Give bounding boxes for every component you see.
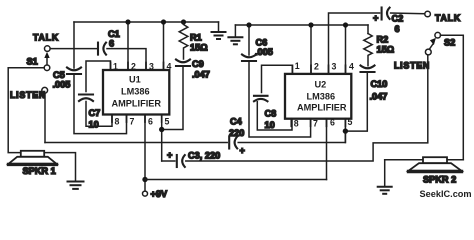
speaker SPKR1 (9, 151, 57, 165)
wire SPKR1 right and ground drop (44, 153, 75, 181)
wire +9V pin6 U1 (144, 115, 146, 192)
wire C7 bottom to pin 8 (86, 102, 112, 127)
resistor R1 (179, 22, 188, 59)
wire pin2 U2 riser (310, 25, 312, 74)
capacitor C10 (361, 66, 375, 73)
switch S2 (425, 11, 431, 17)
svg-text:U2: U2 (315, 80, 327, 90)
capacitor C1 (98, 43, 106, 55)
svg-text:S2: S2 (444, 38, 455, 48)
wire S2 pole to SPKR2 (441, 35, 464, 160)
svg-text:SeekIC.com: SeekIC.com (420, 189, 472, 199)
wire pin2 riser (127, 22, 129, 70)
svg-text:6: 6 (395, 24, 400, 34)
junction dot pin2 U2 (308, 22, 313, 27)
ground G4 (378, 187, 392, 194)
svg-text:C2: C2 (392, 14, 404, 24)
wire C6 drop (248, 25, 250, 55)
wire C10 bottom to pin5 U2 (345, 73, 367, 131)
wire ground rail left (74, 21, 219, 23)
svg-text:.047: .047 (370, 92, 388, 102)
wire listen/C4 line (45, 142, 227, 144)
op-amp U2 LM386 (285, 74, 351, 119)
junction dot pin4 U2 (343, 22, 348, 27)
wire ground 2 drop (234, 25, 236, 37)
switch S1 listen contact (42, 87, 48, 93)
svg-text:C10: C10 (371, 79, 388, 89)
wire SPKR2 left and ground drop (385, 159, 423, 161)
svg-text:8: 8 (115, 117, 120, 127)
wire C5 bottom to pin 7 (74, 75, 127, 134)
svg-text:LM386: LM386 (121, 87, 150, 97)
svg-text:3: 3 (149, 62, 154, 72)
ground G2 (228, 37, 242, 44)
wire C6 bottom to pin7 U2 (249, 62, 311, 137)
svg-text:5: 5 (348, 117, 353, 127)
svg-text:6: 6 (148, 117, 153, 127)
svg-text:1: 1 (295, 61, 300, 71)
svg-text:U1: U1 (129, 75, 141, 85)
wire +9V rail (145, 179, 327, 181)
svg-text:2: 2 (131, 62, 136, 72)
svg-text:C5: C5 (53, 70, 65, 80)
svg-text:1: 1 (113, 62, 118, 72)
svg-text:R1: R1 (190, 33, 202, 43)
wire rail to R2 (367, 25, 369, 34)
svg-text:TALK: TALK (435, 13, 461, 23)
wire C3 to S2 listen (186, 55, 428, 161)
junction dot pin4/rail (161, 19, 166, 24)
svg-text:220: 220 (229, 128, 244, 138)
junction dot +9V (142, 177, 147, 182)
svg-text:SPKR 2: SPKR 2 (423, 175, 456, 185)
svg-text:C9: C9 (192, 59, 204, 69)
svg-text:5: 5 (165, 117, 170, 127)
wire S1 talk to C1 (50, 48, 96, 50)
svg-text:LM386: LM386 (307, 92, 336, 102)
svg-text:+: + (373, 13, 378, 23)
wire pin5 U2 stub (344, 119, 346, 143)
speaker SPKR2 (409, 157, 462, 171)
svg-text:+: + (240, 146, 245, 156)
svg-text:AMPLIFIER: AMPLIFIER (297, 103, 347, 113)
ground G1 (212, 32, 226, 39)
svg-text:+9V: +9V (151, 189, 168, 199)
junction dot pin2/rail (125, 19, 130, 24)
junction dot pin5 U1 (159, 127, 164, 132)
wire pin1 bracket to C7 (86, 61, 111, 92)
svg-text:.005: .005 (53, 80, 71, 90)
svg-text:LISTEN: LISTEN (10, 90, 46, 100)
wire C8 bottom to pin 8 U2 (257, 102, 292, 130)
svg-text:10: 10 (89, 120, 99, 130)
wire pin6 U2 riser (326, 119, 328, 180)
svg-text:2: 2 (314, 62, 319, 72)
svg-text:C1: C1 (108, 29, 120, 39)
capacitor C9 (176, 60, 190, 67)
wire pin3 U2 riser to C2 (329, 13, 380, 74)
svg-text:C4: C4 (230, 117, 243, 127)
svg-text:4: 4 (167, 62, 172, 72)
svg-text:R2: R2 (377, 35, 389, 45)
wire ground rail right (235, 24, 368, 26)
svg-text:15Ω: 15Ω (377, 45, 395, 55)
svg-text:TALK: TALK (33, 33, 59, 43)
svg-text:6: 6 (330, 118, 335, 128)
capacitor C4 (229, 137, 237, 149)
capacitor C7 (79, 95, 93, 102)
op-amp U1 LM386 (103, 70, 169, 115)
junction dot C6/rail (246, 22, 251, 27)
svg-text:LISTEN: LISTEN (394, 61, 430, 71)
svg-text:S1: S1 (27, 57, 38, 67)
wire C1 to pin3 (107, 49, 146, 70)
svg-text:C8: C8 (265, 109, 277, 119)
svg-text:C7: C7 (89, 108, 101, 118)
capacitor C6 (242, 55, 256, 62)
wire C4 to pin5 U2 (238, 131, 345, 142)
capacitor C5 (67, 68, 81, 75)
switch S1 (45, 46, 51, 52)
wire pin4 U2 riser (345, 25, 347, 74)
wire S1 pole to SPKR1 (8, 68, 44, 153)
wire pin1 U2 bracket to C8 (262, 65, 293, 92)
svg-text:.047: .047 (192, 70, 210, 80)
battery terminal +9V (143, 191, 148, 196)
svg-text:+: + (167, 150, 172, 160)
wire pin5 U1 drop (161, 115, 163, 162)
svg-text:C3, 220: C3, 220 (188, 151, 220, 161)
svg-text:4: 4 (349, 62, 354, 72)
capacitor C2 (382, 8, 390, 20)
svg-text:7: 7 (130, 117, 135, 127)
wire pin4 riser (163, 22, 165, 70)
wire ground 1 drop (218, 22, 220, 32)
svg-text:SPKR 1: SPKR 1 (23, 166, 56, 176)
ground G3 (68, 182, 84, 189)
wire SPKR2 right (447, 159, 463, 161)
resistor R2 (364, 34, 372, 66)
wire C9 bottom to pin5 node (162, 67, 183, 130)
junction dot pin5 U2 (343, 128, 348, 133)
wire C2 to S2 talk (391, 12, 425, 15)
capacitor C8 (254, 96, 268, 102)
svg-text:AMPLIFIER: AMPLIFIER (112, 99, 162, 109)
capacitor C3 (177, 155, 185, 167)
wire C5 top riser (73, 22, 75, 68)
wire C3 line (162, 160, 175, 162)
svg-text:8: 8 (294, 119, 299, 129)
svg-text:10: 10 (265, 120, 275, 130)
svg-text:15Ω: 15Ω (190, 43, 208, 53)
svg-text:7: 7 (313, 119, 318, 129)
svg-text:3: 3 (332, 62, 337, 72)
wire listen drop (44, 93, 46, 142)
junction dot R1/rail (181, 19, 186, 24)
svg-text:.005: .005 (255, 47, 273, 57)
svg-text:C6: C6 (256, 38, 268, 48)
svg-text:6: 6 (109, 39, 114, 49)
